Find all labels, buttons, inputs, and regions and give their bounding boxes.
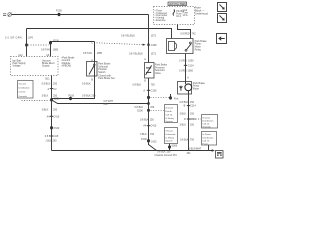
svg-text:C156: C156: [151, 90, 157, 93]
svg-text:0.8 BLK: 0.8 BLK: [180, 101, 189, 104]
svg-text:750: 750: [190, 139, 195, 142]
svg-text:1076: 1076: [28, 36, 34, 39]
svg-text:3 BLK: 3 BLK: [42, 109, 49, 112]
svg-text:250: 250: [104, 103, 109, 106]
svg-text:Cell 14: Cell 14: [202, 124, 210, 126]
svg-text:P100: P100: [68, 95, 74, 98]
svg-text:•(PBCM): •(PBCM): [62, 65, 72, 68]
svg-text:Distrib: Distrib: [165, 110, 172, 113]
svg-text:0.8 BLK: 0.8 BLK: [140, 118, 149, 121]
svg-text:Grounds: Grounds: [202, 125, 211, 128]
svg-text:C415: C415: [151, 140, 157, 143]
svg-text:P100: P100: [54, 127, 60, 130]
svg-text:P100: P100: [141, 138, 147, 141]
svg-text:Cell 14: Cell 14: [165, 114, 173, 116]
svg-text:0.8 BLK: 0.8 BLK: [42, 83, 51, 86]
svg-text:150: 150: [150, 133, 155, 136]
svg-text:Distribution: Distribution: [202, 136, 214, 139]
svg-text:Underhood: Underhood: [195, 11, 208, 15]
svg-text:C410: C410: [53, 115, 59, 118]
svg-text:Supply: Supply: [42, 65, 50, 68]
svg-text:P100: P100: [56, 10, 62, 13]
svg-text:C415: C415: [52, 135, 58, 138]
svg-text:150: 150: [190, 124, 195, 127]
svg-text:0.8 BLK: 0.8 BLK: [82, 82, 91, 85]
svg-text:Distribution: Distribution: [19, 87, 31, 90]
svg-text:System: System: [165, 140, 172, 143]
svg-text:Frnt: Frnt: [174, 97, 179, 100]
svg-text:Ground: Ground: [165, 106, 173, 109]
svg-text:750: 750: [151, 83, 156, 86]
svg-text:S206: S206: [137, 109, 143, 112]
svg-text:Park Brake Set: Park Brake Set: [98, 77, 115, 80]
svg-text:3 ORN: 3 ORN: [179, 59, 187, 62]
svg-text:Relay: Relay: [195, 48, 202, 51]
svg-text:0.8 BLK: 0.8 BLK: [133, 83, 142, 86]
svg-text:Voltage: Voltage: [13, 65, 22, 68]
svg-text:1050: 1050: [188, 59, 194, 62]
svg-text:Valve: Valve: [155, 72, 162, 75]
svg-text:3 BLK: 3 BLK: [180, 124, 187, 127]
svg-text:C114: C114: [190, 105, 196, 108]
svg-text:150: 150: [150, 106, 155, 109]
svg-text:C: C: [91, 41, 93, 44]
svg-text:150: 150: [190, 113, 195, 116]
svg-text:3 BLK: 3 BLK: [42, 94, 49, 97]
svg-text:C410: C410: [150, 125, 156, 128]
svg-text:0.8 RED: 0.8 RED: [180, 32, 189, 35]
svg-text:3 BLK: 3 BLK: [180, 113, 187, 116]
svg-text:HOT AT ALL TIMES: HOT AT ALL TIMES: [169, 2, 186, 6]
svg-text:In Wiring: In Wiring: [165, 136, 174, 139]
svg-text:0.8 YEL/BLK: 0.8 YEL/BLK: [129, 53, 143, 56]
svg-text:B11: B11: [45, 77, 50, 80]
svg-text:1571: 1571: [151, 53, 157, 56]
svg-text:Grounds: Grounds: [19, 95, 28, 98]
svg-text:1685: 1685: [53, 49, 59, 52]
svg-text:• Examine: • Examine: [155, 19, 167, 22]
svg-text:3 BLK: 3 BLK: [140, 133, 147, 136]
svg-text:S250: S250: [54, 98, 60, 101]
svg-text:1 BLK: 1 BLK: [45, 139, 52, 142]
svg-text:C108: C108: [151, 44, 157, 47]
svg-text:1571: 1571: [151, 34, 157, 37]
svg-text:S306: S306: [171, 144, 177, 147]
svg-text:0.8 TAN: 0.8 TAN: [41, 49, 50, 52]
svg-text:10 A: 10 A: [183, 14, 188, 17]
svg-text:Ground: Ground: [202, 116, 210, 119]
svg-text:Cell 10: Cell 10: [202, 141, 210, 143]
svg-text:250: 250: [53, 83, 58, 86]
svg-text:451: 451: [187, 152, 192, 155]
svg-text:250: 250: [52, 139, 57, 142]
svg-text:D: D: [184, 118, 186, 121]
svg-text:250: 250: [53, 109, 58, 112]
svg-text:C310: C310: [190, 118, 196, 121]
svg-text:0.8 YEL/BLK: 0.8 YEL/BLK: [121, 34, 135, 37]
svg-text:1050: 1050: [188, 69, 194, 72]
svg-text:10 A: 10 A: [176, 15, 181, 18]
svg-text:Schematic: Schematic: [165, 133, 176, 136]
svg-text:3.0 OR ORN: 3.0 OR ORN: [5, 36, 22, 39]
svg-text:Chassis Ground 451: Chassis Ground 451: [155, 154, 178, 157]
svg-text:Motor: Motor: [193, 87, 199, 90]
svg-text:C114: C114: [188, 64, 194, 67]
svg-text:In Power: In Power: [202, 133, 211, 136]
svg-text:Ground: Ground: [19, 83, 27, 86]
svg-text:0.8 BLK: 0.8 BLK: [180, 139, 189, 142]
svg-text:Cell 14: Cell 14: [19, 92, 27, 94]
svg-text:1685: 1685: [97, 52, 103, 55]
svg-text:0.8 TAN: 0.8 TAN: [83, 52, 92, 55]
svg-text:3 ORN: 3 ORN: [179, 69, 187, 72]
svg-text:0.8 BLK 250: 0.8 BLK 250: [82, 95, 96, 98]
svg-text:Chassis: Chassis: [165, 130, 174, 132]
svg-text:1 BLK/WHT: 1 BLK/WHT: [189, 147, 202, 150]
svg-text:Distribution: Distribution: [202, 120, 214, 123]
svg-text:System: System: [165, 120, 172, 123]
svg-text:G Wiring: G Wiring: [165, 117, 174, 120]
svg-text:150: 150: [190, 101, 195, 104]
svg-text:150: 150: [150, 118, 155, 121]
svg-text:742: 742: [192, 32, 197, 35]
